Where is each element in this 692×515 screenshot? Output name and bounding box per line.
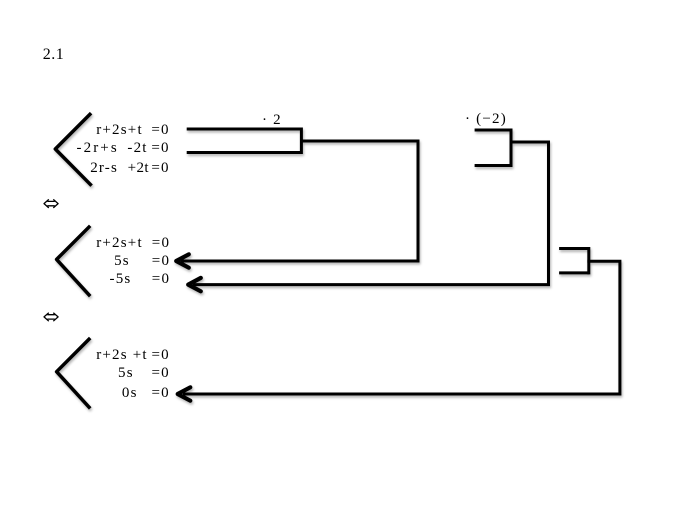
system 2 row 3: -5s = 0 (110, 272, 132, 287)
label multiply by (-2) (465, 112, 507, 127)
system 3 row 3: 0s = 0 (122, 386, 138, 401)
system 2 row 2: 5s = 0 (114, 254, 130, 269)
equivalence arrow 2 (44, 313, 58, 322)
system 3 row 2: 5s = 0 (118, 366, 134, 381)
brace system 2 (57, 226, 91, 296)
system 1 row 1: r+2s+t = 0 (96, 123, 143, 138)
system 1 row 2: -2r+s -2t = 0 (77, 141, 119, 156)
arrowhead into 5s row (176, 254, 189, 267)
brace system 1 (55, 113, 91, 186)
system 1 row 3: 2r-s +2t = 0 (90, 161, 118, 176)
wire merge B bottom stub (row 3) (475, 164, 511, 167)
wire merge A bottom (from row 2) (187, 151, 302, 154)
wire merge C output with arrow into 0s row (183, 261, 620, 394)
label multiply by 2 (262, 113, 282, 128)
wire merge A output with arrow into 5s row (181, 141, 418, 261)
wire merge C top stub (5s row) (559, 247, 589, 250)
wire merge A vertical join (300, 128, 303, 155)
brace system 3 (57, 338, 91, 408)
wire merge B vertical join (510, 129, 513, 168)
arrowhead into 0s row (178, 387, 191, 400)
wire merge C bottom stub (-5s row) (559, 271, 589, 274)
wire merge A top (from row 1) (187, 128, 302, 131)
wire merge B output with arrow into -5s row (193, 142, 549, 285)
system 3 row 1: r+2s +t = 0 (96, 348, 148, 363)
equivalence arrow 1 (44, 199, 58, 208)
wire merge C vertical join (587, 247, 590, 274)
wire merge B top stub (row 1 times -2) (475, 129, 511, 132)
system 2 row 1: r+2s+t = 0 (96, 236, 143, 251)
label 2.1 (43, 47, 65, 63)
arrowhead into -5s row (188, 278, 201, 291)
